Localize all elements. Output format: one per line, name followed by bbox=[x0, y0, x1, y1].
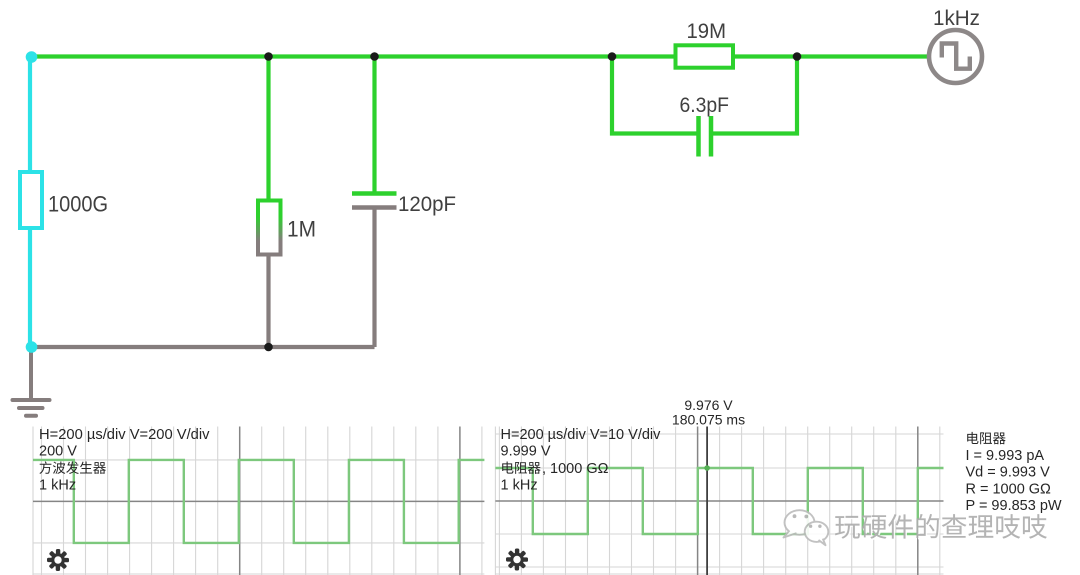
wire: left branch upper (cyan) bbox=[28, 57, 32, 175]
wire: R2 top lead (green) bbox=[266, 57, 270, 203]
info panel: resistor measurements bbox=[967, 432, 978, 444]
capacitor C2 6.3pF right plate bbox=[709, 116, 714, 157]
node A: R2 top junction bbox=[264, 52, 273, 61]
oscilloscope scope1 grid bbox=[33, 427, 484, 575]
svg-text:1000G: 1000G bbox=[48, 192, 108, 217]
resistor R1 1000G (box) bbox=[20, 172, 42, 228]
svg-text:H=200 µs/div V=200 V/div: H=200 µs/div V=200 V/div bbox=[39, 427, 210, 443]
ground symbol bbox=[13, 349, 50, 416]
wire: R3 left lead bbox=[612, 54, 676, 58]
wire: bottom rail (gray) bbox=[31, 345, 375, 349]
wire: R3 right lead bbox=[733, 54, 797, 58]
svg-text:120pF: 120pF bbox=[398, 193, 456, 216]
wire: top rail (green) bbox=[30, 54, 612, 58]
wire: C2 left branch (green) bbox=[612, 57, 697, 134]
scope2 cursor dot on trace bbox=[704, 465, 710, 471]
svg-text:R = 1000 GΩ: R = 1000 GΩ bbox=[966, 481, 1052, 497]
capacitor C1 120pF bottom plate bbox=[352, 205, 397, 210]
svg-text:19M: 19M bbox=[687, 19, 727, 43]
node: ground junction post (cyan) bbox=[26, 341, 38, 353]
node B: C1 top junction bbox=[370, 52, 379, 61]
node E: R2 bottom junction bbox=[264, 343, 273, 352]
wire: R2 bottom lead (gray) bbox=[266, 255, 270, 348]
svg-text:1 kHz: 1 kHz bbox=[39, 477, 76, 493]
svg-text:H=200 µs/div V=10 V/div: H=200 µs/div V=10 V/div bbox=[501, 427, 662, 443]
scope2 settings gear bbox=[506, 549, 528, 571]
wire: C1 bottom lead (gray) bbox=[372, 208, 376, 348]
wire: rail right of R3 junction to source bbox=[797, 54, 929, 58]
wire: left branch lower (cyan) bbox=[28, 228, 32, 345]
node D: R3/C2 right junction bbox=[793, 52, 802, 61]
capacitor C1 120pF top plate bbox=[352, 191, 397, 196]
svg-text:1kHz: 1kHz bbox=[933, 7, 980, 30]
wire: C1 top lead (green) bbox=[372, 57, 376, 194]
resistor R2 1M (box, gradient) bbox=[258, 201, 281, 255]
scope1 trace (square wave 200V) bbox=[33, 460, 484, 543]
voltage source V1 square-wave 1kHz bbox=[929, 30, 982, 83]
svg-text:1 kHz: 1 kHz bbox=[501, 477, 538, 493]
scope2 cursor line bbox=[706, 427, 708, 575]
svg-text:I = 9.993 pA: I = 9.993 pA bbox=[966, 448, 1045, 464]
svg-text:, 1000 GΩ: , 1000 GΩ bbox=[542, 461, 609, 477]
scope1 settings gear bbox=[47, 549, 69, 571]
svg-text:200 V: 200 V bbox=[39, 443, 77, 459]
scope1 label 方波发生器 bbox=[39, 461, 51, 474]
node: top-left corner post (cyan) bbox=[26, 51, 38, 63]
svg-text:180.075 ms: 180.075 ms bbox=[672, 412, 745, 428]
watermark: text 玩硬件的查理吱吱 bbox=[836, 515, 1048, 540]
watermark: wechat icon bbox=[784, 510, 829, 545]
svg-text:P = 99.853 pW: P = 99.853 pW bbox=[966, 498, 1062, 514]
node C: R3/C2 left junction bbox=[608, 52, 617, 61]
svg-text:9.999 V: 9.999 V bbox=[501, 443, 551, 459]
svg-text:1M: 1M bbox=[287, 217, 316, 242]
scope2 trace (square wave 10V) bbox=[495, 468, 943, 534]
wire: C2 right branch (green) bbox=[713, 57, 797, 134]
svg-text:6.3pF: 6.3pF bbox=[680, 94, 730, 117]
oscilloscope scope2 grid bbox=[495, 427, 943, 575]
scope2 label 电阻器, 1000 GΩ bbox=[502, 461, 513, 473]
capacitor C2 6.3pF left plate bbox=[696, 116, 701, 157]
svg-text:Vd = 9.993 V: Vd = 9.993 V bbox=[966, 465, 1051, 481]
resistor R3 19M (box) bbox=[676, 45, 734, 67]
